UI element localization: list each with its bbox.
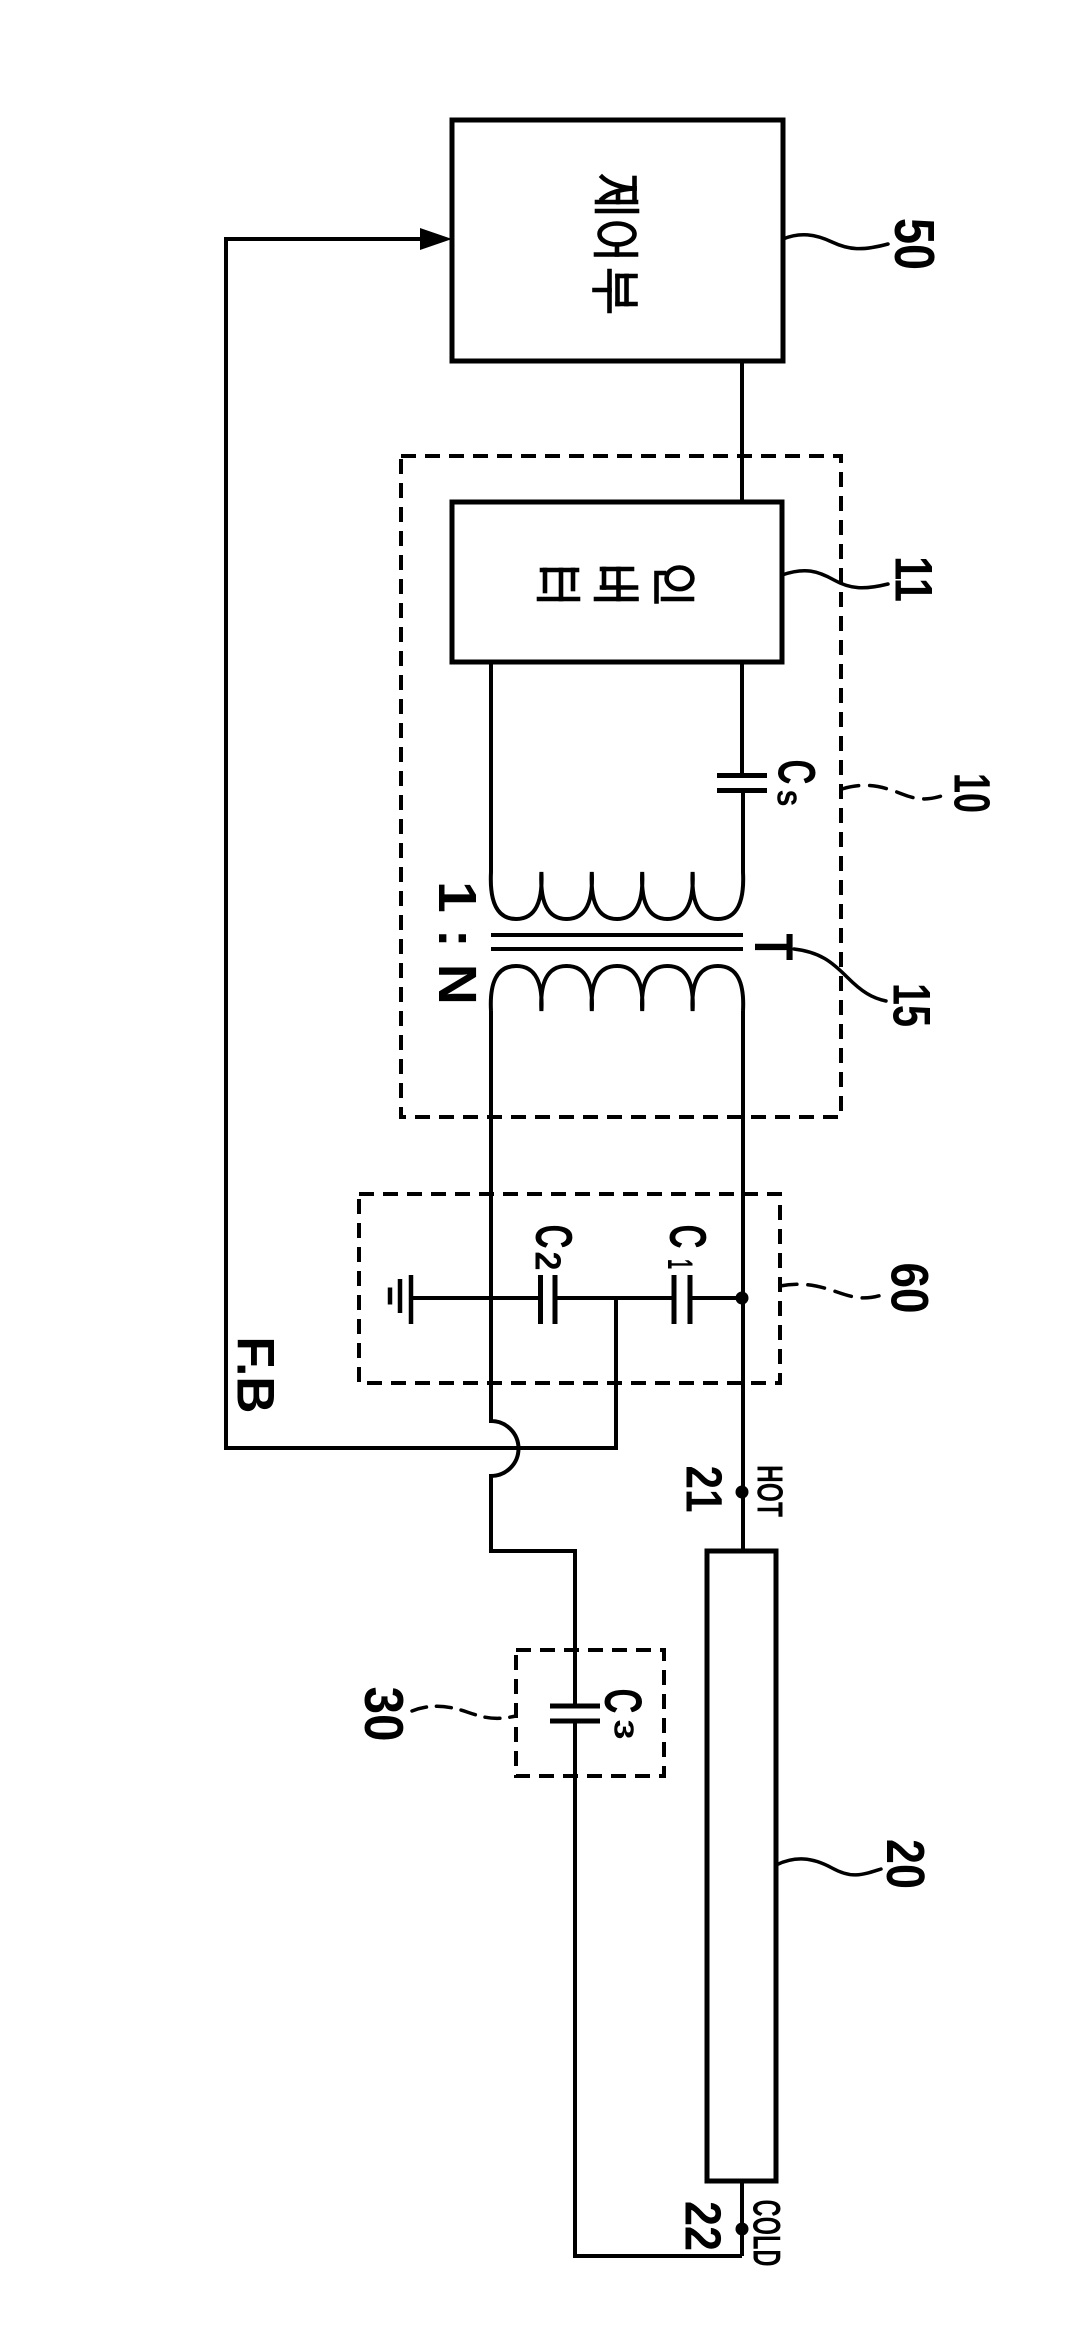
svg-text:1 : N: 1 : N (427, 881, 487, 1005)
svg-text:3: 3 (609, 1720, 640, 1740)
svg-text:10: 10 (944, 773, 1001, 813)
svg-text:60: 60 (880, 1263, 939, 1314)
svg-text:11: 11 (884, 556, 943, 602)
svg-text:1: 1 (660, 1259, 699, 1269)
svg-text:C: C (524, 1225, 582, 1249)
svg-text:F.B: F.B (226, 1337, 285, 1414)
svg-text:2: 2 (528, 1252, 569, 1271)
svg-text:22: 22 (675, 2201, 732, 2251)
svg-text:s: s (770, 790, 811, 807)
svg-text:C: C (593, 1689, 652, 1714)
svg-text:21: 21 (676, 1466, 733, 1513)
svg-text:50: 50 (882, 218, 946, 270)
svg-text:15: 15 (882, 983, 941, 1027)
svg-text:T: T (743, 934, 805, 961)
svg-text:C: C (767, 760, 826, 785)
svg-text:30: 30 (353, 1687, 415, 1742)
svg-text:COLD: COLD (745, 2200, 788, 2267)
svg-text:20: 20 (875, 1839, 935, 1889)
svg-text:C: C (658, 1225, 716, 1249)
svg-text:HOT: HOT (750, 1465, 791, 1517)
